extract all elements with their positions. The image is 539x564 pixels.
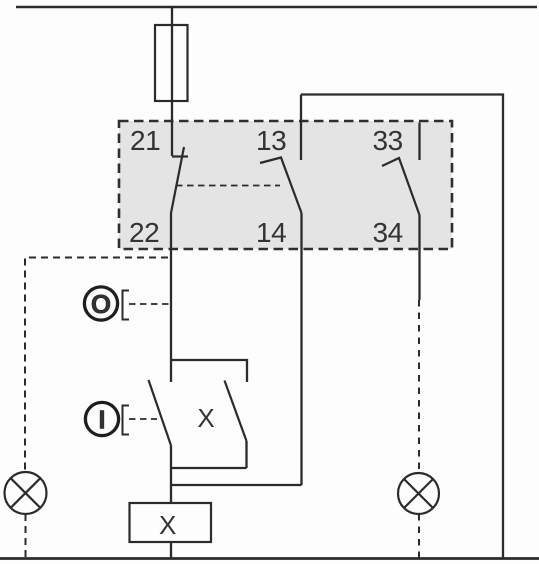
left indicator lamp [5,472,47,514]
O button bracket [123,291,130,320]
wire: top bus through fuse to terminal 21 [171,7,173,156]
NC contact 21-22 moving arm [171,147,184,213]
NO contact 33-34 moving arm [382,158,420,215]
wire: right lamp to bottom bus (dashed) [418,514,420,558]
wire: left lamp to bottom bus (dashed) [25,514,27,558]
NC contact 21-22 fixed tick [172,155,188,157]
wire: parallel-bottom bar [171,467,247,469]
bottom supply bus [0,557,539,560]
svg-text:34: 34 [373,217,403,248]
wire: terminal 34 down (solid part) [418,215,420,300]
svg-text:X: X [197,403,214,433]
wire: coil to bottom bus [170,542,172,558]
svg-text:13: 13 [256,125,286,156]
wire: 14 junction bar [171,484,302,486]
wire: contact 22 down to I/X contacts [170,213,172,382]
safety relay contact block K (gray dashed box) [119,121,452,249]
NO contact 33-34 fixed stub [418,123,420,161]
I pushbutton NO contact arm [149,380,172,446]
top supply bus [16,6,537,8]
wire: branch to X self-hold contact [171,360,247,382]
relay coil X [130,503,212,542]
svg-text:21: 21 [130,125,160,156]
NO contact 13-14 fixed stub [300,95,302,161]
wire: terminal 13 feed, top right [301,95,503,559]
X self-hold NO contact arm [225,381,247,442]
wire: X contact bottom lead [245,441,247,468]
right indicator lamp [398,473,439,514]
svg-text:O: O [91,289,111,319]
svg-text:I: I [98,405,105,435]
svg-text:X: X [159,510,176,540]
O button link (dashed) [129,303,171,305]
O (stop) button [84,287,117,320]
wire: contact 14 down [300,213,302,485]
svg-text:33: 33 [373,125,403,156]
fuse F1 [155,25,188,101]
NO contact 13-14 moving arm [260,158,302,214]
I button link (dashed) [129,418,157,420]
control station enclosure (dashed) [25,258,168,473]
I button bracket [123,406,130,435]
wire: 34 to right lamp (dashed) [418,300,420,473]
wire: I contact bottom to coil [170,446,172,504]
I (start) button [85,402,118,435]
svg-text:22: 22 [129,217,159,248]
mechanical link (dashed) between contacts [176,185,280,187]
svg-text:14: 14 [256,217,286,248]
